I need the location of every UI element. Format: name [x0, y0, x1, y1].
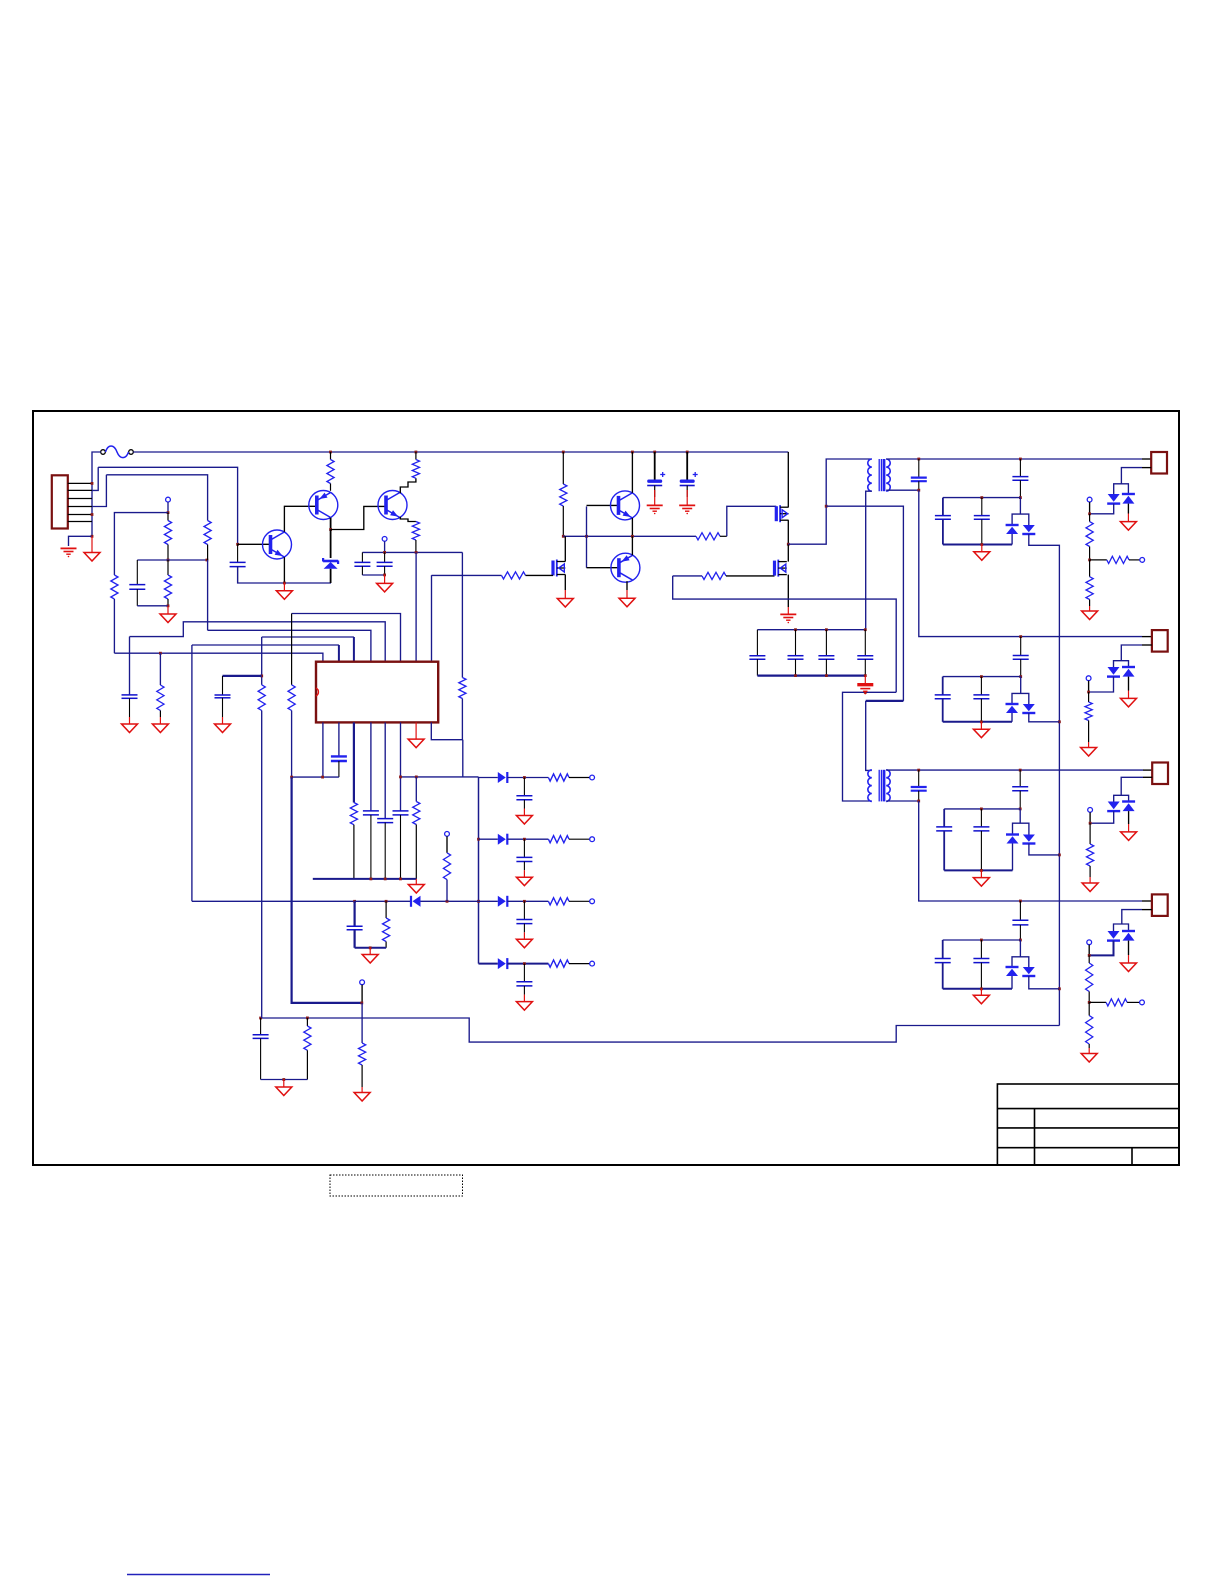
wire C2 bottom to emitter rail [238, 567, 331, 583]
wire bracket J2 [1114, 661, 1129, 667]
wire Q5 collector [626, 581, 628, 590]
capacitor C8 [1012, 459, 1028, 498]
node out1 [590, 775, 595, 780]
junction block3 bottom [980, 869, 983, 872]
wire block3 top rail [944, 808, 1020, 810]
junction 777 pin1b [321, 776, 324, 779]
wire block4 left low [942, 963, 944, 989]
capacitor C21 [749, 630, 765, 676]
wire D6a out [1012, 844, 1014, 871]
capacitor C7 [911, 459, 927, 490]
wire R25 thick drop [292, 777, 362, 1003]
wire J3 pin2 [1121, 777, 1143, 795]
wire D9b cathode [1128, 941, 1130, 955]
capacitor C33 [516, 901, 532, 932]
wire CN1 pin6 stub [68, 521, 92, 523]
transistor Q1 [263, 530, 292, 559]
wire CN1 pin4 stub [68, 506, 92, 508]
wire pin8 rail to R12 [432, 574, 502, 576]
wire block3 left low [943, 831, 945, 871]
wire Q5 base [587, 567, 620, 569]
junction fuse rail R-Q3 [415, 451, 418, 454]
junction thick tie [260, 675, 263, 678]
diode D3b [1122, 494, 1135, 504]
ground GND16 [973, 989, 989, 1004]
wire 777 right seg [401, 776, 479, 778]
wire M3 drain [787, 544, 789, 561]
wire row4 seg-b [507, 963, 548, 965]
capacitor C22 [788, 630, 804, 676]
ground GNDr1 [516, 809, 532, 825]
wire block1 top rail [943, 497, 1021, 499]
junction -V rail b3 [1058, 854, 1061, 857]
junction fb a [370, 878, 373, 881]
capacitor C31 [516, 778, 532, 809]
wire T1 primary bottom [866, 491, 872, 630]
junction row1 cap [523, 776, 526, 779]
transformer T2 [868, 770, 890, 802]
junction block3 C-mid top [980, 808, 983, 811]
wire D2b out [1029, 534, 1060, 1026]
junction rail row3 [477, 900, 480, 903]
resistor R11 [696, 533, 727, 540]
wire pin3 chain [261, 637, 263, 685]
node out3 [590, 899, 595, 904]
wire CN1 pin2 stub [68, 489, 92, 491]
junction block4 C-mid top [980, 939, 983, 942]
schottky D2a [1006, 525, 1019, 534]
junction M1-M3 node [787, 543, 790, 546]
junction ret cap [259, 1017, 262, 1020]
wire D9a out [1089, 941, 1113, 956]
wire VCC stem [384, 541, 386, 552]
schottky D6a [1006, 835, 1019, 844]
junction capgroup c [864, 628, 867, 631]
resistor R23 [157, 685, 164, 717]
junction 777 R28 [415, 776, 418, 779]
wire R9 to 777 line [462, 740, 464, 777]
capacitor C1 [129, 560, 145, 606]
wire ext to R26 [361, 1003, 363, 1043]
ground GND3 [276, 583, 292, 599]
resistor R6 [327, 452, 334, 491]
wire block4 top rail [943, 939, 1021, 941]
wire cluster bottom [261, 1079, 308, 1081]
capacitor C25 [253, 1018, 269, 1080]
junction capgroup b [825, 628, 828, 631]
ground GNDr2 [516, 870, 532, 886]
ground GND1 chassis [84, 536, 100, 561]
connector J1 [1151, 452, 1167, 474]
wire pin3b thick [353, 722, 355, 802]
wire block4 bottom rail [943, 988, 1012, 990]
wire Q2-Q3 coupling [331, 506, 386, 529]
node N1 terminal [166, 497, 171, 502]
wire D7b cathode [1128, 811, 1130, 824]
resistor R3 [111, 575, 118, 599]
wire pin2b [338, 722, 340, 756]
resistor R17 [1085, 692, 1092, 742]
node sense1 [1087, 497, 1092, 502]
node fb terminal [445, 832, 450, 837]
junction fb c [399, 878, 402, 881]
wire shunt cap low [354, 930, 356, 948]
ground GNDr3 [516, 932, 532, 948]
junction Q4Q5 base [585, 535, 588, 538]
junction T2 gnd tie [864, 691, 867, 694]
wire D8a out [1011, 976, 1013, 989]
capacitor C32 [516, 839, 532, 870]
wire J2 pin2 stub [1142, 644, 1152, 646]
wire row3 mid [355, 900, 411, 902]
wire cap-group bottom rail [757, 674, 865, 676]
junction block2 C13 top [980, 675, 983, 678]
wire CN1 pin3 stub [68, 498, 92, 500]
junction bus R23 [159, 652, 162, 655]
wire D8b out [1029, 976, 1060, 989]
wire J1 pin2 [1121, 468, 1142, 484]
junction shunt gnd [369, 946, 372, 949]
wire D3a out [1090, 504, 1114, 514]
wire R11 to M1 gate [727, 506, 777, 536]
wire shunt bottom [355, 947, 387, 949]
capacitor C32 [347, 926, 363, 930]
junction ret R [306, 1017, 309, 1020]
resistor R33 [548, 898, 589, 905]
wire C1 bottom [137, 605, 168, 607]
resistor R7 [412, 452, 419, 478]
junction block4 top [1019, 939, 1022, 942]
wire block2 left low [942, 699, 944, 722]
junction block3 top [1019, 808, 1022, 811]
wire T2 drive upper drop [866, 701, 872, 771]
junction R2 bottom [206, 559, 209, 562]
ground GND7 [974, 545, 990, 561]
mosfet M3 [775, 560, 787, 577]
junction capgroup d [794, 674, 797, 677]
wire T2 sec top [886, 769, 1143, 771]
junction fuse rail R-Q2 [329, 451, 332, 454]
wire Q4 emitter [631, 518, 633, 536]
wire bracket1 [1012, 514, 1029, 525]
earth ground M3 [780, 607, 796, 623]
wire block4 left [942, 940, 944, 959]
diode D5a [1107, 667, 1120, 677]
junction capgroup a [794, 628, 797, 631]
wire ext stem [361, 985, 363, 1003]
capacitor C17 [936, 827, 952, 831]
mosfet M2 [553, 560, 565, 577]
resistor R29 [443, 853, 450, 880]
wire J2 pin2 [1121, 645, 1142, 661]
wire pin4b [370, 722, 372, 811]
wire M3 gate chain [673, 576, 897, 692]
wire bus pin3 drop [353, 637, 355, 662]
transistor Q5 [611, 553, 640, 582]
wire aux rail drop [919, 490, 1142, 636]
wire Q1 collector to Q2 base [284, 506, 316, 532]
junction block2 bottom [980, 720, 983, 723]
resistor R21 [1086, 1002, 1093, 1048]
wire CN1 pin4 riser [92, 475, 106, 507]
wire block3 left [943, 809, 945, 827]
ground GND26 [362, 948, 378, 963]
wire rail4 drop [919, 801, 1142, 901]
wire pin6b [400, 722, 402, 811]
resistor R22 [304, 1018, 311, 1080]
junction C7 bottom [917, 489, 920, 492]
junction block1 C10 top [980, 496, 983, 499]
wire zener to ground rail [330, 569, 332, 583]
junction divider4 mid [1088, 1001, 1091, 1004]
junction row3 shunt-c [353, 900, 356, 903]
ground GND12 [1081, 742, 1097, 756]
resistor R30 [383, 901, 390, 948]
wire primary return tap [826, 506, 903, 701]
transistor Q4 [611, 491, 640, 520]
node out4 [590, 961, 595, 966]
wire M2 source [564, 575, 566, 591]
wire Q1 base [238, 543, 271, 545]
capacitor C6 electrolytic [680, 452, 698, 497]
wire block1 left low [942, 519, 944, 544]
wire M1 drain [787, 452, 789, 507]
resistor R8 [412, 522, 419, 553]
junction divider1 mid [1088, 559, 1091, 562]
wire D5a out [1089, 677, 1114, 692]
junction C7 top [917, 458, 920, 461]
capacitor C15 [1012, 770, 1028, 809]
junction 777 pin6b [399, 776, 402, 779]
junction divider2 top [1087, 691, 1090, 694]
junction R4-R5 rail [167, 559, 170, 562]
junction -V rail b4 [1058, 987, 1061, 990]
junction C14 bottom [917, 800, 920, 803]
wire D4a out [1011, 713, 1013, 722]
capacitor C3 [354, 552, 370, 575]
diode D10 [411, 896, 421, 907]
wire pin3 chain low [261, 711, 263, 1019]
resistor R16 [1086, 560, 1093, 606]
ground GND13 [973, 870, 989, 886]
capacitor C9 [935, 516, 951, 520]
node out2 [590, 837, 595, 842]
earth ground primary [857, 676, 873, 695]
capacitor C10 [974, 498, 990, 545]
diode D7a [1107, 802, 1120, 812]
wire ground branch [69, 536, 93, 546]
ground GND4 [377, 575, 393, 592]
resistor R27 [350, 803, 357, 879]
transistor Q3 [378, 491, 407, 520]
wire M1 source [787, 520, 789, 544]
junction CN1 pin1 bus [91, 482, 94, 485]
wire Q3 emitter jog [400, 517, 416, 522]
schottky D4b [1022, 704, 1035, 713]
wire Q4 collector [631, 452, 633, 493]
capacitor C23 [818, 630, 834, 676]
capacitor C11 [1013, 637, 1029, 677]
wire D5b cathode [1128, 677, 1130, 691]
diode D9a [1107, 931, 1120, 941]
wire J4 pin1 stub [1142, 900, 1152, 902]
mosfet M1 [776, 505, 788, 522]
wire Q5 emitter [631, 536, 633, 555]
junction divider4 top [1088, 954, 1091, 957]
wire D3b cathode [1127, 504, 1129, 514]
resistor R5 [164, 560, 171, 606]
diode D12 [498, 834, 508, 845]
wire J3 pin2 stub [1143, 776, 1152, 778]
capacitor C20 [973, 940, 989, 989]
junction Q2 collector [329, 528, 332, 531]
junction VCC R8 [415, 551, 418, 554]
wire D6b out [1029, 844, 1060, 855]
wire block2 left [942, 677, 944, 695]
ground GND6 [557, 590, 573, 607]
wire Q1 emitter [283, 557, 285, 583]
capacitor C30 [377, 819, 393, 879]
ground GND20 [152, 717, 168, 733]
wire VCC rail [362, 551, 462, 553]
node ext terminal [360, 980, 365, 985]
wire row3 seg-b [507, 900, 548, 902]
wire block2 bracket stem [1020, 677, 1022, 694]
wire block3 bottom rail [944, 869, 1012, 871]
junction VCC C3 [383, 551, 386, 554]
wire R9 low [461, 699, 463, 740]
wire row4 seg-a [479, 963, 498, 965]
wire D2a out [1011, 534, 1013, 545]
wire CN1 pin1 stub [68, 482, 92, 484]
footer link underline [127, 1574, 270, 1576]
wire row1 seg-a [479, 777, 498, 779]
junction divider1 top [1088, 512, 1091, 515]
ground GND15 [1082, 877, 1098, 892]
ground GND14 [1121, 824, 1137, 840]
resistor R2 [204, 521, 211, 561]
wire T2 drive lower [843, 692, 897, 801]
resistor R14 [1086, 514, 1093, 560]
capacitor C5 electrolytic [647, 452, 665, 497]
junction C14 top [917, 769, 920, 772]
ground GND23 [354, 1087, 370, 1101]
wire shunt cap stem [354, 901, 356, 926]
resistor R12 [502, 572, 526, 579]
wire R12 to M2 gate [526, 574, 554, 576]
wire M3 gate line [673, 575, 702, 577]
wire bracket3 [1013, 823, 1029, 834]
IC U1 PWM controller [316, 662, 438, 723]
wire J2 pin1 stub [1142, 636, 1152, 638]
transformer T1 [868, 459, 890, 491]
junction CN1 pin5 bus [91, 513, 94, 516]
diode D7b [1122, 802, 1135, 812]
resistor R32 [548, 836, 589, 843]
ground GND18 [1081, 1048, 1097, 1062]
wire T1 sec bottom [886, 489, 919, 491]
wire M2 gate rail [431, 575, 433, 662]
ground GND19 [276, 1080, 292, 1096]
node load1 [1140, 558, 1145, 563]
diode D5b [1122, 667, 1135, 677]
capacitor C19 [935, 959, 951, 963]
schottky D8b [1022, 967, 1035, 976]
ground GND11 [1121, 691, 1137, 707]
junction divider3 top [1089, 822, 1092, 825]
junction rail C6 [686, 451, 689, 454]
capacitor C34 [516, 964, 532, 995]
wire N1 to IC pin1 feed [114, 513, 168, 575]
resistor R24 [258, 685, 265, 711]
resistor R19 [1086, 955, 1093, 1002]
wire row2 seg-a [479, 838, 498, 840]
wire rail3 to R2 [106, 475, 207, 521]
wire D4b out [1029, 713, 1060, 722]
wire bracket4 [1012, 957, 1029, 967]
wire fuse to connector bus [92, 452, 101, 536]
zener diode D1 [323, 558, 338, 569]
fuse F1 [101, 446, 134, 458]
wire CN1 pin2 riser [92, 467, 98, 490]
wire Q4 base [587, 504, 619, 506]
resistor R4 [164, 513, 171, 560]
ground GND10 [973, 722, 989, 738]
junction Q1 base node [236, 543, 239, 546]
wire bus pin4 [208, 630, 371, 661]
wire row3 mid2 [421, 900, 479, 902]
ground GND5 [619, 590, 635, 607]
wire Q3 collector jog [400, 478, 416, 493]
capacitor C4 [377, 552, 393, 575]
wire block2 bottom rail [943, 721, 1012, 723]
schottky D6b [1022, 835, 1035, 844]
wire snubber tie thick [223, 675, 262, 677]
wire bracket J3 [1114, 795, 1129, 801]
earth ground C6 [679, 490, 695, 514]
connector J3 [1152, 763, 1168, 785]
wire block4 bracket stem [1019, 940, 1021, 957]
junction C4 bottom [383, 574, 386, 577]
wire AC live top rail [133, 451, 788, 453]
ground GND8 [1120, 514, 1136, 531]
node load4 [1140, 1000, 1145, 1005]
wire row3 seg-a [479, 900, 498, 902]
junction primary feed [825, 505, 828, 508]
wire T2 drive upper [866, 700, 904, 702]
resistor R25 [288, 614, 295, 711]
capacitor C28 [331, 756, 347, 777]
diode D14 [498, 958, 508, 969]
wire R28 stub [415, 777, 417, 802]
resistor R28 [413, 802, 420, 879]
junction CN1 ground node [91, 535, 94, 538]
capacitor C24 [857, 630, 873, 676]
junction rail Q4 collector [631, 451, 634, 454]
junction 777 R25 [290, 776, 293, 779]
wire M3 source [787, 575, 789, 607]
resistor R34 [548, 960, 589, 967]
capacitor C14 [911, 770, 927, 801]
capacitor C16 [1012, 901, 1028, 940]
wire -V return [261, 1018, 1060, 1042]
wire Q4 base feed [586, 506, 588, 567]
junction fb b [384, 878, 387, 881]
wire C3-C4 bottom [362, 574, 384, 576]
diode D13 [498, 896, 508, 907]
junction rail3 C15 [1019, 769, 1022, 772]
resistor R31 [548, 774, 589, 781]
